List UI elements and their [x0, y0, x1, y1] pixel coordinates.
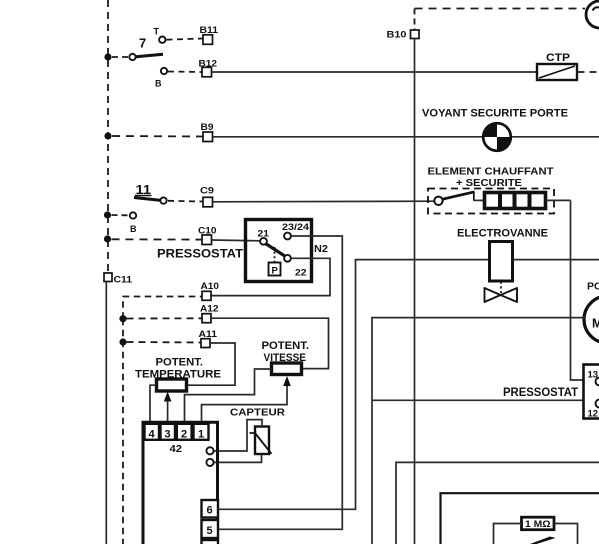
- ECU pin cell 4 bottom (cut): [202, 540, 219, 544]
- svg-text:3: 3: [165, 429, 171, 441]
- connector C9 square: [203, 197, 213, 207]
- wire: dash top to motor top right: [415, 8, 586, 10]
- svg-text:PRESSOSTAT: PRESSOSTAT: [503, 387, 578, 399]
- label 11 underline: [135, 195, 152, 197]
- node junction on bus (switch 7 feed): [104, 53, 111, 60]
- resistor CTP diagonal: [539, 66, 575, 78]
- wire: dash CTP to right edge: [578, 71, 599, 73]
- pressostat contact circle upper: [596, 378, 599, 386]
- connector B10 square: [411, 30, 420, 39]
- relay P box: [269, 263, 281, 276]
- module box bottom right: [441, 493, 599, 544]
- node junction A12: [119, 315, 126, 322]
- trimmer arrow (cut at bottom): [530, 537, 556, 544]
- switch 11 pivot contact: [160, 197, 166, 203]
- svg-text:C10: C10: [198, 226, 217, 237]
- heater block divider 3: [528, 193, 532, 208]
- contact B circle: [130, 212, 136, 218]
- vitesse wiper arrowhead: [283, 376, 291, 386]
- node junction on bus (contact B feed): [104, 211, 111, 218]
- wire: dash switch 11 to C9: [168, 200, 203, 203]
- wire: temperature left end down to ECU pin 4: [150, 385, 157, 424]
- wire: B12 to CTP: [212, 71, 538, 73]
- pressostat right connector box: [584, 365, 599, 419]
- wire: relay 22 out right down to A10 line: [212, 258, 331, 295]
- switch 7 lever: [136, 54, 163, 57]
- wire: pressostat 12 to pump riser: [372, 399, 584, 401]
- wire: dash from bus to switch 7 pivot: [112, 56, 128, 58]
- svg-text:6: 6: [207, 505, 213, 517]
- connector C10 square: [202, 235, 212, 245]
- wire: A12 to potent vitesse right end: [211, 318, 329, 368]
- svg-text:2: 2: [181, 429, 187, 441]
- svg-text:B10: B10: [387, 30, 407, 41]
- heater block divider 2: [513, 193, 517, 208]
- wire: capteur bottom lead to ECU circle: [214, 454, 262, 462]
- heater securite switch lever: [442, 192, 475, 200]
- wire: B9 to lamp and right edge: [213, 136, 599, 138]
- potentiometer vitesse box: [272, 363, 302, 375]
- svg-text:PRESSOSTAT: PRESSOSTAT: [157, 249, 243, 261]
- svg-text:T: T: [154, 27, 160, 37]
- capteur thermistor diagonal: [255, 433, 272, 454]
- electrovanne dotted stem: [500, 282, 502, 294]
- ECU pin cell 1: [194, 424, 209, 440]
- resistor 1 Mohm box: [522, 517, 555, 530]
- wire: C9 to heater element: [213, 200, 435, 203]
- wire: B10 vertical feeder: [414, 39, 416, 544]
- svg-text:C11: C11: [114, 275, 133, 286]
- electrovanne solenoid box: [490, 242, 513, 282]
- connector B11 square: [203, 35, 213, 45]
- heater element block: [485, 193, 546, 209]
- wire: dashed harness vertical to bottom: [122, 319, 124, 544]
- svg-text:1: 1: [198, 429, 204, 441]
- wire: capteur top lead to ECU circle: [214, 420, 262, 451]
- wire: dash to A12: [127, 317, 203, 319]
- wire: dash bus to C10: [112, 238, 203, 240]
- wire: heater output down to pressostat 13: [571, 200, 584, 380]
- relay contact 23/24 circle: [284, 233, 291, 240]
- wire: dash bus to B9: [112, 135, 203, 138]
- svg-text:+ SECURITE: + SECURITE: [456, 177, 522, 189]
- wire: dash T to B11: [167, 39, 204, 40]
- svg-text:B9: B9: [201, 122, 214, 133]
- wire: dash to A11: [127, 341, 202, 344]
- relay contact 22 circle: [284, 255, 291, 262]
- ECU box outline: [143, 422, 218, 544]
- svg-text:VOYANT SECURITE PORTE: VOYANT SECURITE PORTE: [422, 108, 568, 120]
- switch 7 pivot contact: [129, 54, 135, 60]
- ECU pin cell 3: [161, 424, 176, 440]
- wire: relay 23/24 out right then down to ECU pin 5: [219, 236, 343, 529]
- wire: pump feed from pressostat 12: [372, 318, 585, 544]
- connector C11 square: [104, 273, 112, 282]
- svg-text:A12: A12: [200, 304, 219, 315]
- svg-text:M: M: [592, 317, 599, 331]
- wire: vitesse left end jog to ECU pin 2: [185, 369, 272, 424]
- wire: ECU pin 1 to vitesse wiper: [202, 381, 288, 424]
- svg-text:4: 4: [149, 429, 156, 441]
- node junction A11: [119, 338, 126, 345]
- capteur thermistor diagonal foot: [250, 432, 256, 434]
- svg-text:ELEMENT CHAUFFANT: ELEMENT CHAUFFANT: [428, 166, 555, 178]
- svg-text:C9: C9: [200, 186, 214, 197]
- motor top right inner arc: [593, 7, 599, 10]
- svg-text:7: 7: [139, 36, 146, 51]
- pressostat contact circle lower: [596, 400, 599, 408]
- svg-text:5: 5: [207, 525, 213, 537]
- wire: solid line below C11: [105, 282, 107, 544]
- svg-text:A10: A10: [201, 281, 220, 292]
- svg-text:22: 22: [295, 268, 307, 279]
- svg-text:POM: POM: [587, 281, 599, 293]
- wire: dash B to B12: [168, 71, 202, 74]
- svg-text:CTP: CTP: [546, 52, 570, 64]
- wire: heater output right: [546, 199, 571, 201]
- svg-text:23/24: 23/24: [282, 222, 310, 233]
- relay lever 21-22: [266, 244, 286, 257]
- svg-text:ELECTROVANNE: ELECTROVANNE: [457, 228, 548, 240]
- element chauffant dashed enclosure: [428, 189, 554, 214]
- temperature wiper arrowhead: [164, 392, 172, 402]
- svg-text:1 MΩ: 1 MΩ: [525, 519, 551, 529]
- relay contact 21 circle: [260, 238, 267, 245]
- relay pressure dotted link: [274, 247, 276, 262]
- ECU pin cell 6: [202, 500, 219, 518]
- svg-text:POTENT.: POTENT.: [262, 340, 310, 352]
- ECU pin cell 2: [177, 424, 192, 440]
- svg-text:B: B: [130, 224, 137, 234]
- wire: left dashed supply bus: [107, 0, 109, 273]
- svg-text:B11: B11: [200, 25, 219, 36]
- wire: dash contact B row: [112, 214, 129, 216]
- node junction on bus (B9 feed): [104, 132, 111, 139]
- wire: dashed harness branch corner to A10: [123, 297, 202, 319]
- heater lever tip tick: [473, 192, 475, 201]
- svg-text:B: B: [155, 79, 162, 89]
- motor top right (cut at edge): [586, 1, 599, 28]
- wire: A11 down to potent temperature right end: [188, 343, 236, 385]
- wire: 1 Mohm left lead: [494, 524, 522, 544]
- connector A11 square: [201, 339, 210, 348]
- electrovanne valve bowtie: [485, 288, 518, 302]
- ECU terminal circle upper: [206, 447, 213, 454]
- wire: ECU pin 3 to temperature wiper: [167, 397, 169, 424]
- connector B12 square: [202, 67, 212, 77]
- connector A12 square: [202, 314, 211, 323]
- wire: ECU pin 6 to electrovanne: [219, 260, 599, 510]
- svg-text:N2: N2: [314, 244, 328, 255]
- switch 11 lever: [134, 198, 160, 201]
- contact T circle: [159, 37, 165, 43]
- connector A10 square: [202, 291, 211, 300]
- wire: 1 Mohm right lead: [554, 524, 578, 544]
- svg-text:P: P: [272, 266, 279, 277]
- heater input contact circle: [434, 197, 442, 205]
- motor pompe circle (cut at edge): [584, 296, 599, 343]
- ECU pin cell 4: [145, 424, 160, 440]
- svg-text:42: 42: [170, 443, 183, 455]
- ECU terminal circle lower: [206, 459, 213, 466]
- heater block divider 1: [498, 193, 502, 208]
- svg-text:A11: A11: [199, 329, 218, 340]
- svg-text:CAPTEUR: CAPTEUR: [230, 407, 285, 419]
- connector B9 square: [203, 132, 213, 142]
- svg-text:POTENT.: POTENT.: [156, 357, 204, 369]
- relay N2 box: [246, 220, 312, 282]
- node junction on bus (C10 feed): [104, 235, 111, 242]
- wire: stub to heater block: [474, 199, 485, 201]
- contact B circle of switch 7: [161, 68, 167, 74]
- lamp voyant securite porte: [483, 123, 511, 151]
- capteur thermistor box: [255, 427, 269, 455]
- wire: branch to right edge mid low: [396, 462, 599, 544]
- potentiometer temperature box: [157, 379, 187, 391]
- resistor CTP box: [537, 64, 577, 80]
- svg-text:B12: B12: [199, 59, 218, 70]
- wire: C10 to relay 21: [212, 239, 261, 242]
- wire: dash B10 up: [414, 9, 416, 31]
- ECU pin cell 5: [202, 520, 219, 538]
- svg-text:12: 12: [588, 409, 599, 420]
